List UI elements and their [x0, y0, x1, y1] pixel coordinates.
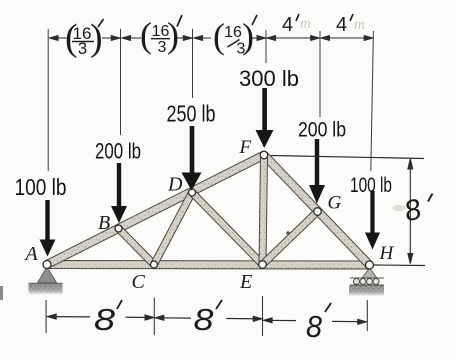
bottom dimension label 8 ft third	[306, 303, 331, 344]
svg-text:8: 8	[94, 302, 116, 337]
svg-text:4: 4	[336, 14, 347, 36]
top dimension line segment F-G (4 ft)	[267, 36, 319, 41]
dimension label 4 ft second	[336, 14, 365, 36]
joint H	[366, 261, 374, 269]
svg-text:300 lb: 300 lb	[239, 66, 299, 91]
stray pencil dot near centre	[286, 231, 290, 235]
joint F	[260, 151, 268, 159]
dimension label (16/3) ft second	[140, 15, 182, 56]
roller support at H	[349, 268, 384, 296]
svg-text:3: 3	[78, 39, 87, 58]
svg-text:E: E	[239, 271, 252, 293]
svg-text:H: H	[379, 243, 395, 264]
svg-text:D: D	[167, 174, 183, 196]
bottom dimension label 8 ft second	[194, 300, 223, 337]
svg-text:100 lb: 100 lb	[350, 174, 392, 197]
joint G	[314, 208, 322, 216]
joint D	[189, 189, 196, 196]
joint B	[115, 225, 122, 232]
bottom dimension line E-H (8 ft)	[264, 318, 367, 324]
svg-text:8: 8	[194, 302, 215, 337]
load arrow 200 lb at G	[309, 139, 325, 204]
top dimension line segment B-D with arrows	[122, 36, 192, 41]
top dimension extension lines	[48, 29, 373, 171]
top chord A-B-D-F	[45, 151, 266, 268]
pin support at A	[29, 267, 63, 295]
load arrow 300 lb at F	[256, 88, 274, 148]
bottom dimension label 8 ft first	[94, 300, 122, 337]
height dimension reference line bottom (from H)	[373, 264, 425, 267]
svg-text:4: 4	[282, 14, 293, 36]
svg-text:(: (	[140, 15, 152, 55]
svg-text:8: 8	[306, 309, 323, 344]
bottom dimension line C-E (8 ft)	[155, 315, 261, 321]
svg-text:): )	[167, 15, 179, 55]
load arrow 100 lb at A	[40, 200, 56, 257]
top dimension line segment A-B with arrows	[50, 36, 120, 41]
height dimension reference line top (from F)	[271, 156, 424, 159]
dimension label (16/3) ft first	[65, 17, 104, 59]
load arrow 200 lb at B	[111, 163, 127, 223]
bottom chord A-C-E-H	[47, 261, 370, 270]
member E-G	[260, 209, 320, 267]
svg-text:250 lb: 250 lb	[167, 101, 216, 127]
stray mark left edge	[0, 286, 3, 300]
svg-text:m: m	[354, 17, 365, 33]
dimension label (16/3) ft third	[213, 15, 257, 58]
svg-text:3: 3	[158, 39, 167, 56]
svg-text:C: C	[132, 271, 146, 293]
svg-text:A: A	[24, 243, 39, 265]
bottom dimension extension lines	[46, 296, 367, 336]
svg-text:): )	[242, 16, 254, 56]
svg-text:200 lb: 200 lb	[298, 119, 346, 142]
top dimension line segment D-F with arrows	[194, 36, 266, 41]
joint A	[43, 261, 51, 269]
top dimension line segment G-H (4 ft)	[321, 36, 373, 41]
joint E	[259, 261, 267, 269]
bottom dimension line A-C (8 ft)	[48, 314, 154, 320]
svg-text:16: 16	[224, 24, 242, 41]
load arrow 250 lb at D	[182, 126, 202, 191]
dimension label 4 ft first	[282, 14, 311, 36]
svg-text:G: G	[328, 193, 342, 214]
svg-text:m: m	[300, 16, 311, 32]
svg-text:100 lb: 100 lb	[15, 174, 67, 200]
member E-F	[259, 155, 268, 265]
top chord F-G-H	[261, 152, 372, 268]
svg-text:200 lb: 200 lb	[95, 139, 141, 164]
member B-C	[116, 226, 157, 267]
svg-text:F: F	[239, 137, 252, 158]
load arrow 100 lb at H	[365, 191, 380, 250]
height dimension label 8 ft	[393, 193, 433, 228]
svg-text:B: B	[98, 212, 110, 234]
member D-E	[190, 190, 266, 267]
height dimension vertical line with arrows (8 ft)	[408, 159, 413, 264]
member C-D	[151, 191, 195, 266]
joint C	[151, 261, 158, 268]
